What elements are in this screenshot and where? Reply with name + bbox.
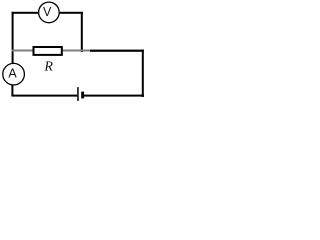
wire top-left horizontal xyxy=(12,12,39,14)
resistor R body xyxy=(34,47,62,55)
svg-text:A: A xyxy=(8,67,17,81)
wire left vertical xyxy=(12,12,14,64)
wire bottom left horizontal xyxy=(11,95,77,97)
wire middle black segment xyxy=(90,50,144,52)
battery short plate (negative) xyxy=(81,92,84,99)
voltmeter V1 circle xyxy=(39,2,60,23)
wire middle grey segment xyxy=(12,50,90,52)
svg-text:V: V xyxy=(43,5,52,19)
svg-text:R: R xyxy=(43,60,53,75)
wire bottom right horizontal xyxy=(84,95,144,97)
wire top-right horizontal xyxy=(60,12,83,14)
wire right vertical xyxy=(142,50,144,97)
battery long plate (positive) xyxy=(77,87,79,101)
ammeter A1 circle xyxy=(3,63,25,85)
wire vertical from top wire down to middle wire xyxy=(81,12,83,52)
wire vertical below ammeter xyxy=(11,85,13,96)
